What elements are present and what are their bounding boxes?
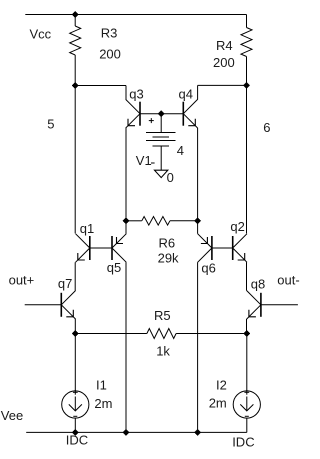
wire q3 base to node (140, 113, 161, 115)
svg-text:5: 5 (47, 117, 54, 132)
wire Vee bottom rail (26, 431, 247, 433)
wire q4 emitter vertical (197, 85, 199, 99)
transistor q8 (247, 291, 261, 320)
wire q7 base stub out+ (25, 304, 62, 306)
svg-text:200: 200 (213, 55, 235, 70)
wire R4 top lead (246, 15, 248, 28)
wire left rail node5 (74, 86, 76, 234)
junction q6 rail/bottom rail (194, 429, 200, 435)
V1 minus sign (151, 162, 155, 164)
wire q1-q5 base link (90, 247, 112, 249)
resistor R3 (70, 26, 81, 55)
wire R5 right lead (176, 333, 247, 335)
transistor q2 (233, 234, 247, 263)
svg-text:q7: q7 (58, 276, 72, 291)
wire q5 collector rail (125, 262, 127, 432)
svg-text:q3: q3 (129, 87, 143, 102)
wire q8 base stub out- (261, 304, 298, 306)
junction node q8/R5/I2 (244, 330, 250, 336)
transistor q4 (183, 99, 197, 128)
wire R3 bottom lead (74, 55, 76, 86)
junction I1/bottom rail (72, 429, 78, 435)
svg-text:q5: q5 (107, 260, 121, 275)
junction q5 rail/bottom rail (123, 429, 129, 435)
svg-text:R4: R4 (216, 38, 233, 53)
junction Vcc/R3 (72, 11, 78, 17)
wire R6 left lead (126, 220, 142, 222)
svg-text:V1: V1 (136, 153, 152, 168)
wire q3 collector rail (125, 128, 127, 221)
svg-text:Vcc: Vcc (30, 26, 52, 41)
svg-text:I1: I1 (96, 378, 107, 393)
svg-text:R6: R6 (159, 235, 176, 250)
junction node R4/q4/q2 (243, 82, 249, 88)
wire R6 right lead (170, 220, 198, 222)
wire q2 collector to q8 (246, 262, 248, 290)
wire q3 emitter horizontal (75, 85, 126, 87)
transistor q1 (76, 234, 90, 263)
svg-text:q6: q6 (201, 260, 215, 275)
svg-text:29k: 29k (158, 251, 179, 266)
wire q6 emitter lead (197, 221, 199, 234)
junction node q7/R5/I1 (72, 330, 78, 336)
junction node R6 right (194, 218, 200, 224)
wire q4 base to node (161, 113, 183, 115)
transistor q5 (112, 234, 126, 263)
battery V1 plates (146, 132, 176, 134)
transistor q6 (198, 234, 212, 263)
svg-text:0: 0 (167, 170, 174, 185)
wire q5 emitter lead (125, 221, 127, 234)
svg-text:out+: out+ (9, 273, 35, 288)
transistor q7 (61, 291, 75, 320)
wire q4 collector rail (197, 128, 199, 221)
wire R5 left lead (75, 333, 147, 335)
svg-text:IDC: IDC (66, 433, 88, 448)
wire I2 top lead (246, 334, 248, 392)
wire I1 bottom lead (74, 418, 76, 432)
svg-text:2m: 2m (94, 396, 112, 411)
junction node V1+/bases (158, 111, 164, 117)
junction node R6 left (123, 218, 129, 224)
svg-text:Vee: Vee (1, 408, 23, 423)
svg-text:R5: R5 (154, 308, 171, 323)
wire q1 collector to q7 (74, 262, 76, 290)
svg-text:1k: 1k (156, 343, 170, 358)
wire R3 top lead (74, 15, 76, 27)
wire q8 emitter lead (246, 319, 248, 333)
svg-text:R3: R3 (101, 25, 118, 40)
V1 plus sign (149, 120, 154, 122)
resistor R4 (241, 28, 252, 57)
wire I1 top lead (74, 334, 76, 392)
wire V1 positive lead (160, 114, 162, 133)
wire q7 emitter lead (74, 319, 76, 333)
svg-text:out-: out- (277, 273, 299, 288)
resistor R6 (142, 217, 170, 226)
svg-text:IDC: IDC (232, 434, 254, 449)
svg-text:6: 6 (263, 120, 270, 135)
wire V1 negative lead (160, 146, 162, 170)
svg-text:q1: q1 (80, 221, 94, 236)
svg-text:200: 200 (99, 46, 121, 61)
wire right rail node6 (246, 85, 248, 233)
current source I2 (233, 390, 260, 418)
svg-text:q2: q2 (230, 219, 244, 234)
svg-text:q4: q4 (179, 87, 193, 102)
junction node R3/q3/q1 (72, 82, 78, 88)
current source I1 (62, 390, 89, 418)
wire Vcc top rail (25, 14, 246, 16)
ground symbol 0 (155, 170, 168, 177)
svg-text:2m: 2m (209, 396, 227, 411)
svg-text:4: 4 (177, 143, 184, 158)
wire I2 bottom lead (246, 418, 248, 432)
wire q6 collector rail (197, 262, 199, 432)
wire q4 emitter horizontal (198, 84, 247, 86)
svg-text:I2: I2 (216, 378, 227, 393)
transistor q3 (126, 99, 140, 128)
wire q6-q2 base link (212, 247, 233, 249)
wire R4 bottom lead (246, 57, 248, 86)
svg-text:q8: q8 (251, 276, 265, 291)
resistor R5 (147, 329, 176, 339)
wire q3 emitter vertical (125, 86, 127, 100)
